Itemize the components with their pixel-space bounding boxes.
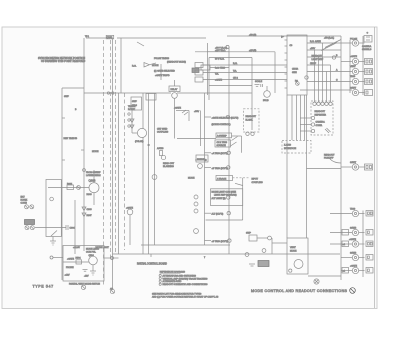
connector pin mark 5 (354, 91, 356, 93)
wire vertical bus B dashed (103, 40, 105, 285)
wire right gate rail (207, 43, 209, 95)
wire cap drop (174, 98, 176, 138)
svg-text:REF. TIME 5B: REF. TIME 5B (64, 138, 78, 140)
terminal post 2 (30, 205, 34, 209)
plug box 3 (365, 69, 373, 75)
repeater left contact 3 (311, 129, 314, 132)
resistor R17 (160, 151, 163, 156)
svg-text:READOUT: READOUT (246, 115, 257, 118)
wire bottom rail y245 (141, 244, 230, 246)
connector stub 7 (359, 213, 365, 215)
wire right vertical x350 (349, 40, 351, 93)
terminal post 4 (30, 226, 34, 230)
pin stub 2 (285, 45, 288, 47)
switch S90 (249, 235, 257, 241)
repeater left contact 2 (311, 123, 314, 126)
svg-text:PARTIAL VERT MODE SWITCH: PARTIAL VERT MODE SWITCH (69, 282, 100, 285)
connector pin mark 8 (354, 231, 356, 233)
svg-text:OF DRAWING THIS POINT REMOVED: OF DRAWING THIS POINT REMOVED (41, 60, 85, 63)
capacitor C21 circle (172, 93, 178, 99)
pin stub 8 (285, 87, 288, 89)
wire ic drop 4 (304, 97, 306, 140)
wire center vertical x148.6 (148, 93, 150, 254)
node ring G (194, 229, 199, 234)
svg-text:R386: R386 (87, 194, 93, 196)
wire center vertical x154.5 (154, 93, 156, 245)
connector circle J4 (352, 78, 358, 84)
resistor R384 (67, 185, 74, 190)
wire bracket x363 bottom (362, 211, 364, 278)
wire vertical bus C dashed (110, 40, 112, 260)
switch box S380 (46, 180, 61, 237)
wire arrow drop (188, 111, 190, 122)
wire vertical bus D (112, 38, 114, 289)
svg-text:LOWER BEAM: LOWER BEAM (86, 174, 101, 177)
svg-text:DELAY: DELAY (171, 88, 178, 91)
vert switch box (63, 246, 104, 282)
switch arrow s1 (232, 137, 238, 141)
svg-text:CAMERA: CAMERA (362, 45, 372, 48)
plug box 11 (366, 268, 373, 274)
wire gate stub (160, 64, 162, 80)
diode stack d3 (194, 209, 198, 213)
wire horizontal rail y93 right (177, 92, 252, 94)
node earth a (77, 186, 81, 190)
wire row 152 (205, 152, 212, 154)
svg-text:(o) GATE SELECTED: (o) GATE SELECTED (154, 70, 175, 73)
svg-text:SAWT: SAWT (350, 161, 357, 164)
contact r2 (251, 132, 254, 135)
switch wafer marks2 (184, 112, 188, 115)
wire inner frame right (251, 58, 253, 131)
svg-text:Q584: Q584 (89, 255, 95, 257)
connector pin mark 6 (354, 166, 356, 168)
note line 3 (159, 280, 161, 282)
wire vertical left rail (61, 88, 63, 280)
wire shaper drop (129, 215, 131, 245)
connector stub 4 (359, 81, 365, 83)
relay K1 box (131, 97, 142, 110)
svg-text:SWP: SWP (64, 96, 69, 98)
amplifier readout gate (144, 63, 150, 68)
svg-text:MODE CONTROL AND READOUT C: MODE CONTROL AND READOUT CONNECTIONS (251, 289, 348, 293)
wire q384 top (93, 170, 95, 183)
wire inner frame left (208, 58, 210, 101)
svg-text:VERT: VERT (350, 66, 356, 68)
svg-text:READOUT SCHEMATIC AND CONNE: READOUT SCHEMATIC AND CONNECTIONS (163, 283, 208, 286)
svg-text:+50 (R): +50 (R) (249, 34, 256, 36)
wire drop x200 (200, 111, 202, 147)
gate U22 dark (192, 68, 199, 73)
svg-text:T.S.: T.S. (233, 71, 237, 73)
svg-text:R.O.: R.O. (132, 66, 137, 68)
node ring D (227, 196, 230, 199)
node ring A (226, 115, 229, 118)
pulse shaper circle (127, 209, 133, 215)
repeater top contact 3 (321, 102, 324, 105)
wire row 213 (205, 212, 212, 214)
wire right inner border (374, 27, 376, 308)
svg-text:+12V: +12V (65, 275, 71, 277)
wire box in left (53, 257, 63, 259)
svg-text:GEN: GEN (292, 72, 297, 74)
svg-text:+B TRIG (DLY'D): +B TRIG (DLY'D) (212, 241, 229, 243)
wire vertical bus A (83, 38, 85, 251)
svg-text:REPEATER: REPEATER (315, 114, 327, 117)
vert mode box (287, 238, 308, 274)
pin box P3 (195, 77, 203, 82)
connector pin mark 11 (354, 269, 356, 271)
connector stub 9 (359, 243, 365, 245)
gate box b3 (342, 268, 349, 274)
svg-text:PROBE: PROBE (66, 267, 74, 269)
wire out y57 (307, 56, 341, 58)
svg-text:QUAD: QUAD (107, 36, 113, 39)
gate box b2 (342, 241, 349, 247)
svg-text:R.O. GATE: R.O. GATE (310, 40, 321, 43)
wire row y85.5 (209, 85, 252, 87)
wire dash right (233, 177, 250, 179)
svg-text:LIGHT INTF: LIGHT INTF (312, 59, 324, 61)
wire row y167 (341, 166, 352, 168)
op-amp U100 readout box (287, 35, 307, 95)
wire center vertical x143 lower (142, 138, 144, 255)
contact sw1 (50, 197, 54, 201)
junction ring j1 (107, 92, 109, 94)
diode CR13 (130, 119, 134, 123)
wire inner frame top (209, 57, 252, 59)
svg-text:VERT: VERT (290, 247, 296, 249)
connector circle J6 (352, 164, 358, 170)
MAIN-BUSES (62, 27, 375, 308)
wire bottom right (308, 275, 341, 277)
svg-text:VERTICAL AMP (DRIVER) TRACE: VERTICAL AMP (DRIVER) TRACE TRACKING (163, 277, 208, 280)
tick mark l3 (81, 149, 84, 151)
wire jog 1 (321, 43, 337, 51)
wire base y262 (63, 261, 89, 263)
ground symbol (50, 240, 56, 242)
svg-text:(PULSE): (PULSE) (135, 141, 144, 143)
pin stub 1 (285, 39, 288, 41)
contact small (289, 269, 292, 272)
svg-text:+12.6V: +12.6V (73, 247, 80, 249)
wire horizontal rail y93 (84, 92, 171, 94)
svg-text:SEE PARTS LIST FOR SEMICON: SEE PARTS LIST FOR SEMICONDUCTOR TYPES (152, 293, 202, 296)
connector stub 8 (359, 232, 365, 234)
plug box 8 (366, 230, 373, 236)
svg-text:MODE: MODE (92, 151, 99, 153)
svg-text:C384: C384 (70, 228, 76, 230)
svg-text:+15 (R): +15 (R) (249, 50, 256, 52)
svg-text:CHAR: CHAR (292, 68, 299, 71)
svg-text:T.S.: T.S. (215, 74, 219, 76)
svg-text:MODE: MODE (188, 178, 195, 180)
svg-text:MAG: MAG (132, 104, 137, 107)
svg-text:R.O. TRIG: R.O. TRIG (215, 68, 225, 70)
wire inner box left (120, 38, 122, 93)
svg-text:LIGHT AMP DIAGRAM): LIGHT AMP DIAGRAM) (214, 193, 237, 196)
wire row y257 (341, 257, 352, 259)
svg-text:R.O.: R.O. (233, 63, 238, 65)
wire row y72.5 (203, 72, 287, 74)
wire out y81.5 (307, 81, 352, 83)
junction ring j2 (112, 92, 114, 94)
contact lc1 (83, 169, 86, 172)
node circle ref2 (110, 289, 114, 293)
ground gq (90, 270, 96, 272)
resistor R584 (76, 260, 82, 264)
transistor Q584 (89, 256, 98, 265)
wire lamp stub (266, 86, 268, 91)
svg-text:AND (+) FOR POWER SOURCE: AND (+) FOR POWER SOURCE RETURN AT START… (152, 295, 219, 298)
wire bracket x363 top (362, 36, 364, 95)
contact ring (152, 175, 157, 180)
svg-text:+GATE SELECTED (DLY'D): +GATE SELECTED (DLY'D) (212, 116, 239, 119)
connector stub 3 (359, 71, 365, 73)
svg-text:READOUT: READOUT (315, 110, 326, 113)
svg-text:+GATE: +GATE (350, 55, 357, 58)
resistor dark box (258, 261, 269, 267)
note line 2 (159, 277, 161, 279)
wire out y61.5 (341, 61, 352, 63)
wire gate out (150, 63, 157, 65)
pin stub 3 (285, 52, 288, 54)
repeater box dashed (311, 101, 333, 135)
wire (174, 80, 176, 86)
wire stub y160 (195, 159, 206, 161)
node ring light (332, 56, 335, 59)
pin stub 4 (285, 59, 288, 61)
svg-text:R387: R387 (87, 215, 93, 217)
gate box b1 (342, 230, 349, 236)
wire emitter drop (92, 265, 94, 271)
repeater top contact 2 (317, 102, 320, 105)
resistor R21 box (169, 86, 180, 92)
wire y227 (35, 227, 66, 229)
svg-text:Z-AXIS: Z-AXIS (284, 144, 291, 147)
connector circle J1 (352, 40, 358, 46)
transistor Q90 (294, 260, 303, 269)
connector pin mark 9 (354, 243, 356, 245)
node ring ro (226, 45, 229, 48)
wire out y50 (307, 49, 341, 51)
connector pin mark 2 (354, 60, 356, 62)
wire +15V rail (195, 51, 275, 53)
diode zener1 (82, 207, 86, 211)
svg-text:PICKOFF: PICKOFF (324, 158, 334, 160)
wire vertical bus E (118, 93, 120, 254)
tick mark l2 (62, 159, 65, 161)
svg-text:(READOUT MODE): (READOUT MODE) (167, 61, 186, 64)
svg-text:PULSE: PULSE (350, 39, 358, 41)
svg-text:ALT (DLY'D): ALT (DLY'D) (212, 212, 224, 215)
svg-text:Q384: Q384 (89, 179, 96, 183)
pin stub 6 (285, 73, 288, 75)
wire row y270 (341, 270, 352, 272)
contact ring h3 (245, 253, 249, 257)
connector pin mark 3 (354, 70, 356, 72)
wire drop (271, 238, 273, 254)
connector circle J11 (352, 267, 358, 273)
svg-text:SOURCE: SOURCE (217, 145, 227, 147)
terminal post 3 (25, 226, 29, 230)
wire y220 (206, 219, 243, 221)
svg-text:BLANKING: BLANKING (163, 165, 174, 168)
plug box 9 (366, 241, 373, 247)
wire row y232 (330, 232, 352, 234)
wire row 240 (205, 240, 212, 242)
wire x241 drop (241, 136, 243, 153)
svg-text:+50 (R.O.): +50 (R.O.) (324, 38, 334, 40)
pin box P1 (195, 63, 203, 68)
svg-text:BLANK: BLANK (246, 119, 254, 122)
svg-text:EXT: EXT (21, 197, 26, 199)
wire ic drop 2 (296, 97, 298, 140)
wire bottom rail y254 (113, 253, 341, 255)
border frame is decorative (2, 27, 377, 309)
contact r1 (246, 132, 249, 135)
wire box out right (104, 257, 119, 259)
connector stub 5 (359, 92, 365, 94)
svg-text:MODE LIGHT COM (SEE: MODE LIGHT COM (SEE (212, 191, 237, 193)
CENTER-AREA (177, 34, 341, 243)
contact c2 (128, 119, 130, 121)
svg-text:INPUT: INPUT (252, 179, 259, 181)
wire out y43 (307, 42, 352, 44)
switch wafer marks (182, 110, 186, 113)
wire (210, 67, 229, 69)
diode stack d2 (194, 202, 198, 206)
svg-text:COUPLING: COUPLING (252, 182, 264, 184)
svg-text:COUPLING: COUPLING (157, 132, 169, 134)
wire vertical x287 (286, 95, 288, 238)
wire out y90 (300, 89, 352, 91)
node ring C (227, 166, 230, 169)
mode selector box (216, 133, 232, 138)
svg-text:+GATE: +GATE (174, 107, 181, 110)
svg-text:SWP: SWP (246, 233, 251, 235)
svg-text:+A TRIG (DLY'D): +A TRIG (DLY'D) (212, 152, 228, 155)
diode CR14 (130, 125, 134, 129)
svg-text:+GATE: +GATE (67, 258, 74, 261)
svg-text:READOUT: READOUT (324, 154, 335, 157)
repeater top contact 4 (325, 102, 328, 105)
plug box top (364, 36, 372, 43)
svg-text:A TRACE: A TRACE (217, 177, 227, 180)
diode stack d1 (194, 195, 198, 199)
svg-text:+B TRIG (DLY'D): +B TRIG (DLY'D) (212, 168, 229, 170)
svg-text:PULSE TIMING: PULSE TIMING (154, 58, 169, 60)
svg-text:SWP: SWP (132, 101, 137, 103)
svg-text:INTERFACE: INTERFACE (284, 147, 297, 150)
mode light enclosure (211, 189, 243, 206)
register box dashed (244, 109, 260, 132)
wire center vertical x230 (228, 47, 230, 254)
wire repeater drop 3 (322, 43, 324, 102)
wire left feeds (300, 117, 311, 119)
trigger box (215, 140, 231, 147)
ground sym2 (249, 263, 255, 265)
plug box 5 (365, 90, 373, 96)
svg-text:COM PNL: COM PNL (86, 252, 97, 254)
pin box P2 (195, 70, 203, 75)
lamp graticule B101 (264, 91, 271, 98)
svg-text:SIGNALS: SIGNALS (362, 48, 372, 51)
wire vertical x306.5 (306, 95, 308, 238)
node ring E (227, 212, 230, 215)
wire +50V rail (227, 35, 341, 37)
wire row 167 (205, 166, 212, 168)
svg-text:C386: C386 (87, 209, 93, 211)
pin tick b1 (291, 95, 293, 97)
lamp B17 (161, 155, 165, 159)
plug box 7 (366, 211, 373, 217)
repeater left contact 1 (311, 116, 314, 119)
svg-text:50 V R.O.: 50 V R.O. (215, 59, 225, 61)
note line 1 (159, 274, 161, 276)
node title ref circle (350, 288, 356, 294)
wire row y65 (203, 64, 287, 66)
plug box 4 (365, 79, 373, 85)
wire top rail segment (117, 37, 206, 39)
connector pin mark 7 (354, 212, 356, 214)
plug box 6 (365, 164, 373, 170)
svg-text:CH 1 TRIG: CH 1 TRIG (217, 142, 228, 144)
connector circle J2 (352, 58, 358, 64)
node earth symbol (314, 279, 319, 284)
wire right vertical x341 (340, 36, 342, 280)
svg-text:HORIZ: HORIZ (21, 200, 28, 202)
svg-text:SAWT: SAWT (350, 87, 357, 90)
wire base link (132, 132, 137, 134)
wire repeater drop 4 (326, 72, 328, 103)
wire quad drop diagonal (137, 42, 144, 46)
svg-text:R584: R584 (76, 258, 82, 260)
wire emitter (93, 193, 95, 205)
junction ring in (50, 256, 53, 259)
ground symbol bulb (255, 84, 260, 86)
svg-text:+GATE: +GATE (126, 207, 133, 210)
wire repeater drop 5 (330, 65, 332, 102)
TOP-AREA (38, 35, 229, 146)
repeater top contact 5 (329, 102, 332, 105)
svg-text:(MODE CONTROL): (MODE CONTROL) (212, 124, 231, 126)
svg-text:CONN: CONN (21, 203, 28, 205)
capacitor C25 (198, 164, 203, 169)
connector pin mark 10 (354, 256, 356, 258)
svg-text:SAWB: SAWB (350, 252, 357, 255)
wire out y71.5 (307, 71, 352, 73)
svg-text:SAWB: SAWB (350, 227, 357, 230)
connector QUAD box (106, 35, 114, 38)
interface box dashed (282, 141, 311, 154)
svg-text:FROM SWEEP: FROM SWEEP (86, 172, 101, 174)
wire row y168 (307, 168, 342, 170)
node dot y160 (205, 159, 207, 161)
wire collector (131, 111, 133, 134)
connector stub 2 (359, 61, 365, 63)
ground lug (325, 129, 329, 133)
RIGHT-AREA (282, 31, 373, 278)
diode zener2 (82, 213, 86, 217)
svg-text:+GATE: +GATE (349, 238, 356, 241)
svg-text:ATTENUATORS AND SWITCHING: ATTENUATORS AND SWITCHING (163, 274, 197, 277)
wire row y213 (330, 213, 352, 215)
wire out y65 (307, 64, 331, 66)
trace box (216, 176, 233, 181)
svg-text:+GATE: +GATE (215, 79, 222, 82)
contact ic right (305, 76, 308, 79)
